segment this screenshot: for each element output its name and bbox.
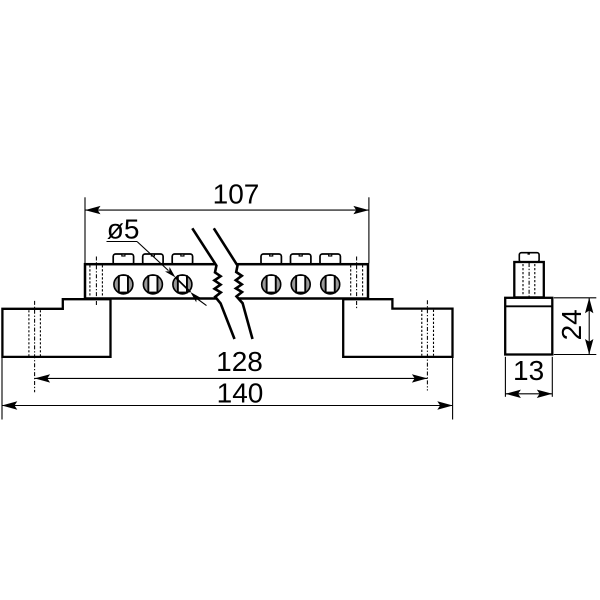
dimension 128 arrow right	[412, 374, 428, 382]
break line right	[214, 228, 253, 339]
wire clamp 6	[320, 254, 340, 265]
hidden line bar left B	[101, 265, 103, 297]
left mounting foot	[2, 299, 110, 357]
break line left	[192, 228, 234, 339]
screw terminal 4	[262, 274, 281, 294]
dimension 128 arrow left	[35, 374, 51, 382]
foot hole hidden line left A	[28, 310, 30, 356]
wire clamp 5	[291, 254, 311, 265]
break gap mask	[192, 228, 252, 339]
svg-text:128: 128	[216, 346, 263, 377]
dimension 140 arrow left	[2, 401, 17, 409]
dimension 24 arrow bottom	[585, 339, 593, 355]
leader arrow lower	[190, 292, 200, 302]
screw terminal 6	[321, 274, 340, 294]
side view cap notch	[528, 252, 530, 255]
leader tail	[198, 299, 207, 306]
dimension 140 arrow right	[437, 401, 453, 409]
centerline bar left	[95, 257, 97, 306]
dimension 140 extension left	[1, 358, 3, 420]
foot hole centerline right	[426, 300, 428, 390]
wire clamp 3	[172, 254, 192, 265]
screw terminal 1	[114, 274, 133, 294]
side view terminal body	[514, 262, 544, 297]
screw terminal 5	[291, 274, 310, 294]
dimension 13 arrow right	[537, 390, 553, 398]
dimension 24 arrow top	[585, 298, 593, 314]
foot hole hidden line right A	[421, 310, 423, 356]
foot hole hidden line right B	[433, 310, 435, 356]
svg-text:140: 140	[217, 378, 264, 409]
dimension 24 extension bottom	[554, 354, 597, 356]
dimension 13 line	[505, 393, 552, 395]
foot hole centerline left	[34, 301, 36, 392]
dimension 140 extension right	[452, 358, 454, 420]
dimension 13 extension right	[551, 357, 553, 397]
wire clamp 2	[143, 254, 163, 265]
screw terminal 3	[173, 274, 192, 294]
side view cap	[519, 253, 539, 262]
wire clamp 1	[113, 254, 133, 265]
foot hole hidden line left B	[39, 310, 41, 356]
dimension 140 line	[2, 405, 453, 407]
svg-text:ø5: ø5	[107, 214, 140, 245]
leader line ø5 diagonal	[137, 242, 169, 271]
dimension 107 arrow right	[353, 206, 369, 214]
screw terminal 2	[143, 274, 162, 294]
dimension 24 extension top	[554, 297, 597, 299]
svg-text:24: 24	[556, 309, 587, 340]
dimension 128 line	[35, 377, 428, 379]
wire clamp 4	[261, 254, 281, 265]
svg-text:107: 107	[213, 179, 260, 210]
leader chord through screw	[175, 277, 190, 292]
dimension 107 arrow left	[85, 206, 101, 214]
hidden line bar left A	[89, 265, 91, 297]
hidden line bar right A	[350, 265, 352, 297]
hidden line bar right B	[362, 265, 364, 297]
dimension 13 extension left	[504, 357, 506, 397]
side view hidden line B	[534, 264, 536, 296]
side view base block	[505, 298, 552, 355]
leader arrow upper	[165, 267, 175, 277]
busbar body	[85, 264, 368, 298]
dimension 107 extension right	[368, 197, 370, 263]
leader line ø5 horizontal	[107, 241, 138, 243]
side view base inner line	[505, 305, 552, 307]
dimension 13 arrow left	[505, 390, 521, 398]
dimension 107 line	[85, 209, 369, 211]
dimension 24 line	[588, 298, 590, 355]
right mounting foot	[343, 299, 452, 357]
centerline bar right	[356, 257, 358, 310]
dimension 107 extension left	[84, 197, 86, 263]
side view hidden line A	[522, 264, 524, 296]
svg-text:13: 13	[513, 355, 544, 386]
side view centerline	[528, 263, 530, 297]
